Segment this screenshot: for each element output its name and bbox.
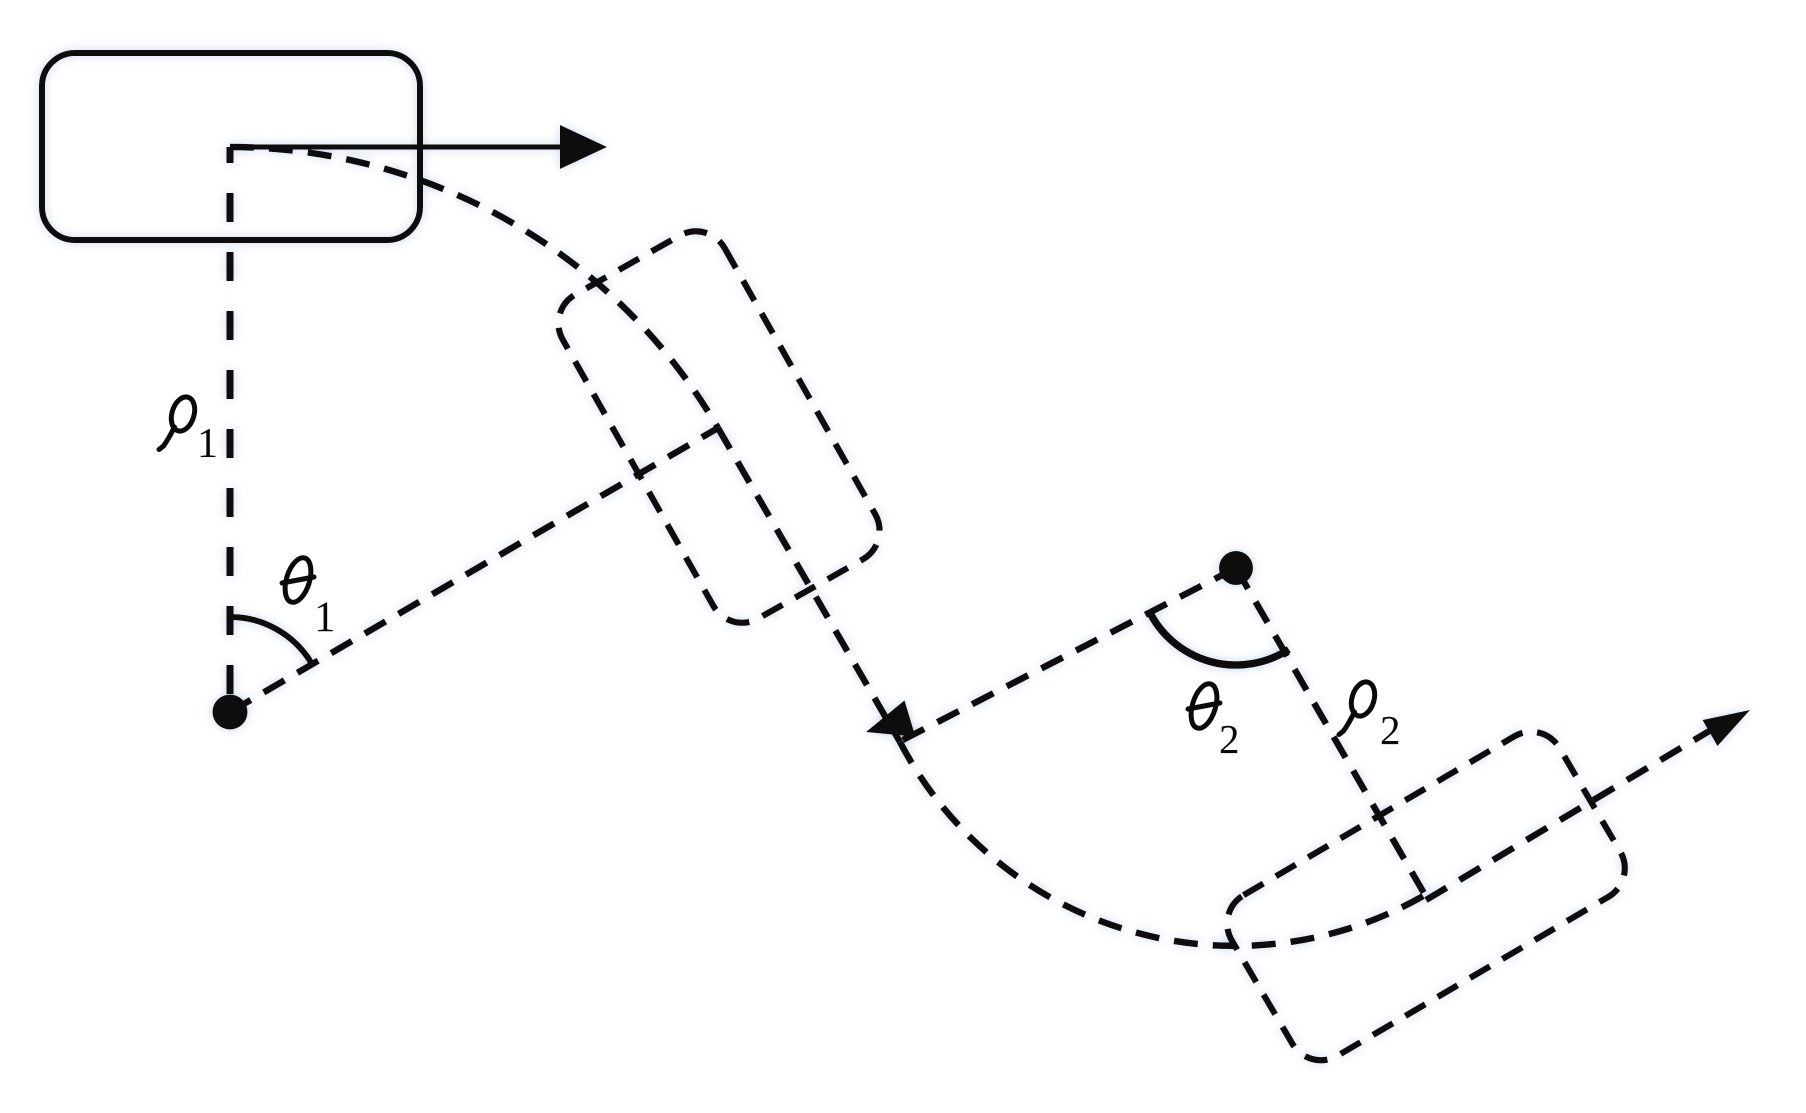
- svg-text:2: 2: [1380, 707, 1401, 753]
- svg-text:1: 1: [197, 421, 218, 467]
- svg-text:1: 1: [314, 594, 336, 641]
- svg-text:2: 2: [1219, 716, 1240, 762]
